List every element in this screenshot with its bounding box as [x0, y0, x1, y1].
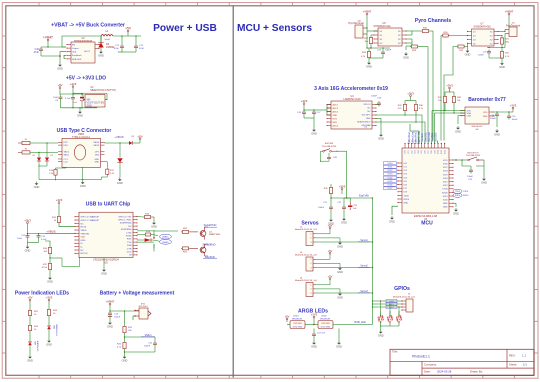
wire J2 power pin [316, 231, 330, 234]
LED D5 power 5V red [28, 332, 39, 351]
resistor R35 4.7k SCL pullup [398, 103, 407, 115]
diode D2 ESD protection D+ [45, 143, 54, 166]
ground GND (LED 3V3) [46, 330, 52, 346]
capacitor C14 100uF battery [108, 311, 121, 319]
ground GND (vsense) [122, 355, 128, 363]
svg-text:(NL): (NL) [505, 42, 509, 44]
svg-text:IO9: IO9 [434, 150, 436, 153]
ground GND (UART) [101, 268, 107, 276]
svg-text:IO4: IO4 [418, 150, 420, 153]
svg-text:10uF: 10uF [53, 97, 59, 99]
svg-text:TS-1088-X2S5: TS-1088-X2S5 [322, 146, 337, 148]
resistor R15 1k VREGIN [52, 206, 61, 224]
ground GND (pyro2 left) [465, 43, 472, 56]
svg-text:GND: GND [366, 118, 371, 120]
capacitor C13 0.1uF UART vdd [37, 234, 48, 241]
wire RXD TXD to transistors [137, 230, 155, 252]
svg-text:DOU GND: DOU GND [321, 326, 331, 328]
wire esd bottom rail [380, 325, 399, 330]
wire mcu EN to boot switch [453, 159, 467, 160]
LED LED1 WS2812B-2020 argb [287, 316, 305, 329]
svg-text:GND: GND [465, 53, 471, 57]
svg-text:IO2: IO2 [411, 150, 413, 153]
block title +5V -> +3V3 LDO [66, 76, 106, 82]
net flag USBD- [153, 239, 172, 244]
ground GND (boot) [481, 177, 487, 185]
wire J2 gnd pin [316, 238, 340, 241]
svg-text:100nF: 100nF [467, 176, 474, 178]
svg-text:47uF: 47uF [34, 51, 40, 54]
op-amp U2 regulator TPS54302 body [66, 37, 99, 63]
diode pack D9 gpio esd [396, 311, 402, 326]
svg-text:TXD0: TXD0 [463, 191, 469, 193]
svg-text:IO12: IO12 [444, 150, 446, 154]
wire pyro cont1 vertical [432, 31, 434, 141]
wire I2C SDA down to MCU [416, 122, 425, 141]
power symbol +3V3 (I2C pullups) [405, 91, 416, 103]
svg-text:GND: GND [80, 184, 86, 188]
ground GND (TVS) [117, 178, 123, 186]
resistor R17 47.5k divider bottom [42, 258, 52, 271]
connector J11 PyroTerminal 2 [505, 23, 520, 37]
svg-text:+3V3: +3V3 [24, 218, 31, 222]
resistor R16 10k divider top [43, 241, 52, 255]
title block outline [390, 349, 534, 375]
wire diode to +5V [132, 142, 140, 144]
ground GND (J2) [337, 241, 343, 249]
ground GND (accel right) [376, 119, 384, 141]
svg-text:Power Indication LEDs: Power Indication LEDs [15, 291, 69, 297]
capacitor C22 10uF mcu [337, 198, 346, 211]
net label Servo2 [358, 265, 370, 268]
svg-text:47.5k: 47.5k [42, 267, 48, 269]
block title Power Indication LEDs [15, 291, 69, 297]
wire pyro2 vbat to connector [508, 18, 510, 27]
svg-text:RGB_LED: RGB_LED [354, 321, 365, 324]
svg-text:MMBT3904: MMBT3904 [209, 234, 221, 236]
resistor R19 470 usb d+ [144, 231, 152, 236]
wire I2C SCL down to MCU [405, 115, 422, 141]
svg-text:100nF: 100nF [144, 346, 151, 348]
wire +VBAT to VIN [41, 46, 66, 48]
svg-text:RES: RES [333, 122, 338, 124]
svg-text:47uF: 47uF [139, 48, 145, 50]
svg-text:DOU GND: DOU GND [293, 326, 303, 328]
capacitor C23 1uF mcu red [344, 198, 358, 210]
ground GND (mcu bottom left) [389, 216, 395, 224]
svg-text:TXD: TXD [127, 242, 132, 244]
svg-text:MolexKK-254-2.54_1x3: MolexKK-254-2.54_1x3 [295, 255, 318, 257]
svg-text:+VBAT: +VBAT [505, 10, 514, 14]
wire J3 signal to bus [316, 267, 373, 269]
op-amp U3 ESP32-S3-MINI MCU body [402, 148, 449, 227]
power symbol +3V3 (UART caps) [24, 218, 31, 226]
wire pyro2 cont row [449, 35, 468, 36]
wire pyro1 bottom rail [366, 34, 390, 49]
wire pyro fire1 vertical [427, 47, 429, 141]
svg-text:+3V3: +3V3 [70, 82, 77, 86]
svg-text:REV:: REV: [509, 353, 516, 357]
net label Serial0TxD [204, 223, 217, 227]
wire baro pullup tops [445, 90, 454, 95]
connector J5 gpio header [393, 294, 416, 313]
svg-text:Pyro Channels: Pyro Channels [415, 18, 451, 24]
svg-text:SW2 EN: SW2 EN [325, 143, 334, 145]
resistor R18 1k suspend [137, 213, 154, 221]
wire +5V output rail [113, 35, 141, 36]
wire vsense node [124, 334, 155, 341]
svg-text:GND: GND [333, 115, 338, 117]
MCU left net labels column [384, 162, 399, 190]
svg-text:SDA/SDI/SDO: SDA/SDI/SDO [357, 120, 371, 123]
resistor R34 pyro2 cont [441, 32, 450, 37]
svg-text:LED2: LED2 [321, 316, 327, 318]
ground GND (gpio esd) [378, 330, 384, 338]
svg-text:GND: GND [404, 203, 409, 205]
svg-text:GND: GND [443, 207, 448, 209]
power symbol +5V (argb left) [285, 315, 290, 323]
svg-text:VDD DIN: VDD DIN [293, 323, 302, 325]
wire pyro1 vbat to connector [366, 18, 367, 34]
title block Date field [424, 370, 483, 374]
svg-text:GND: GND [494, 133, 500, 137]
wire J2 signal to bus [316, 241, 373, 243]
net flag RXD0 oval [453, 193, 469, 197]
connector J2 servo header [295, 227, 318, 246]
resistor R38 10k baro pullup 2 [452, 95, 461, 104]
capacitor C21 100nF mcu [318, 198, 333, 211]
svg-text:Serial0RxD: Serial0RxD [202, 242, 215, 246]
svg-text:Servos: Servos [301, 221, 318, 227]
svg-text:+3V3: +3V3 [301, 99, 308, 103]
svg-text:CSB: CSB [467, 116, 472, 118]
power symbol +3V3 (baro) [510, 104, 517, 112]
svg-text:PyroFire1: PyroFire1 [408, 131, 411, 142]
wire lower rxd link [153, 244, 155, 252]
svg-text:GPIO.0 / TXT: GPIO.0 / TXT [118, 216, 132, 218]
wire EspTxRx to mcu [331, 195, 373, 199]
svg-text:WS2812B: WS2812B [292, 318, 302, 320]
wire output caps to feedback [118, 50, 136, 53]
ground GND (accel caps) [304, 116, 317, 136]
svg-text:ADC1: ADC1 [333, 103, 339, 106]
svg-text:BaroSCL: BaroSCL [425, 131, 428, 141]
title block Sheet field [509, 363, 527, 367]
svg-text:+VBUS: +VBUS [46, 229, 55, 233]
svg-text:ADC0: ADC0 [333, 124, 339, 127]
svg-text:Output: Output [72, 47, 79, 50]
svg-text:5V POWER: 5V POWER [38, 340, 40, 351]
svg-text:2024-03-28: 2024-03-28 [437, 370, 452, 374]
block title Servos [301, 221, 318, 227]
resistor R29 pyro1 fire gate [410, 45, 428, 52]
svg-text:VOUT VOUT: VOUT VOUT [87, 103, 101, 105]
svg-text:EspRxD: EspRxD [205, 255, 215, 259]
svg-text:USBD-: USBD- [162, 242, 169, 244]
svg-text:NC: NC [128, 226, 132, 228]
MCU top rotated net labels [409, 139, 421, 144]
svg-text:D-: D- [81, 247, 84, 249]
svg-text:Sheet:: Sheet: [509, 363, 517, 367]
svg-text:GND: GND [483, 116, 488, 118]
svg-text:4.7uF: 4.7uF [65, 98, 71, 100]
svg-text:GND: GND [389, 220, 395, 224]
svg-text:PyroFire2: PyroFire2 [415, 131, 418, 142]
capacitor C28 100nF EN delay [327, 156, 338, 162]
power symbol +VBAT (battery) [106, 300, 115, 308]
section title MCU + Sensors [237, 23, 312, 34]
wire bus above MCU into top pins [405, 115, 438, 144]
svg-text:SIY8204(FII-GE): SIY8204(FII-GE) [373, 26, 390, 28]
svg-text:USBD+: USBD+ [162, 237, 170, 239]
resistor R30 pyro1 cont [412, 28, 433, 33]
svg-text:USB Type C Connector: USB Type C Connector [57, 128, 112, 134]
op-amp U5 CP2102N USB-UART bridge body [74, 212, 137, 265]
svg-text:Title:: Title: [392, 349, 398, 353]
svg-text:GND: GND [117, 181, 123, 185]
capacitor C12 47uF output [134, 36, 145, 50]
svg-text:+5V: +5V [328, 274, 333, 278]
svg-text:PyroCont1: PyroCont1 [411, 130, 414, 142]
svg-text:MCU + Sensors: MCU + Sensors [237, 23, 312, 34]
svg-text:10uH: 10uH [104, 39, 110, 41]
section divider line between Power+USB and MCU+Sensors [232, 6, 234, 378]
capacitor C7 4.7uF LDO out [65, 94, 75, 108]
ground GND (J4) [337, 292, 343, 300]
wire mcu left gnd [392, 206, 398, 215]
wire servo bus vertical [372, 198, 373, 325]
svg-text:IO6: IO6 [425, 150, 427, 153]
MCU left pin rows [397, 162, 409, 204]
svg-text:Drawn By:: Drawn By: [470, 370, 483, 374]
svg-text:+VBAT: +VBAT [106, 300, 115, 304]
capacitor C16 100nF accel [297, 107, 315, 116]
connector J4 servo header [295, 278, 318, 297]
svg-text:GND: GND [453, 212, 459, 216]
ground GND (pyro2 sense) [499, 62, 505, 70]
svg-text:SBU1: SBU1 [64, 152, 70, 154]
svg-text:+3V3: +3V3 [407, 91, 414, 95]
svg-text:RVCLK: RVCLK [81, 253, 89, 255]
wire input cap to GND [59, 55, 61, 63]
connector J3 servo header [295, 252, 318, 271]
power symbol +5V (LDO input) [57, 83, 62, 91]
wire divider bottom [124, 350, 125, 355]
ground GND (LDO) [77, 110, 83, 118]
title block Title field [392, 349, 430, 358]
svg-text:Company:: Company: [424, 363, 437, 367]
op-amp U1 LDO ME6217C33M5G body [83, 86, 116, 108]
resistor R20 470 txd [154, 228, 190, 233]
ground GND (divider) [47, 271, 53, 284]
wire mcu right gnd [453, 203, 456, 207]
svg-text:IO8: IO8 [431, 150, 433, 153]
svg-text:GND: GND [337, 270, 343, 274]
svg-text:+5V: +5V [328, 223, 333, 227]
svg-text:GPIO.2 / WAKEUP: GPIO.2 / WAKEUP [81, 219, 100, 222]
svg-text:RSTb: RSTb [81, 227, 87, 229]
svg-text:+5V: +5V [27, 296, 32, 300]
op-amp U8 SPL06-001 barometer body [460, 107, 493, 131]
capacitor C8 tantalum red [73, 94, 88, 108]
connector USB1 TYPE-C body [58, 134, 105, 167]
power symbol +3V3 (argb mid) [311, 313, 318, 320]
svg-text:+5V: +5V [137, 134, 142, 138]
block title Battery + Voltage measurement [100, 291, 175, 297]
svg-text:AcclInt1: AcclInt1 [421, 133, 424, 142]
wire D- to connector [30, 152, 58, 153]
svg-text:C27 1uF: C27 1uF [317, 333, 326, 335]
svg-text:GPIO.3 / WAKEUP: GPIO.3 / WAKEUP [81, 216, 100, 219]
power symbol +3V3 (baro pullups) [446, 84, 453, 91]
svg-text:GND: GND [94, 162, 99, 164]
wire gpio rows from bus [372, 300, 402, 307]
switch SW2 EN TS-1088-X2S5 [322, 143, 337, 152]
svg-text:GND: GND [341, 221, 347, 225]
LED D6 power 3V3 red [47, 317, 58, 336]
diode D1 ESD protection D- [32, 152, 41, 177]
wire argb led2 gnd [338, 329, 340, 342]
capacitor C11 47uF output [114, 36, 124, 50]
svg-text:VMon: VMon [145, 333, 152, 337]
capacitor C26 100nF boot [462, 160, 474, 181]
transistor Q1 MMBT3904 [190, 227, 221, 240]
svg-text:PyroTerminal: PyroTerminal [348, 21, 364, 25]
polyfuse F1 D+ line [18, 139, 30, 144]
svg-text:LED1: LED1 [293, 316, 299, 318]
svg-text:GND: GND [107, 325, 113, 329]
wire J4 gnd pin [316, 289, 340, 292]
wire baro vdd rail [493, 111, 513, 112]
svg-text:+5V: +5V [57, 83, 62, 87]
svg-text:RTSb: RTSb [126, 236, 132, 238]
svg-text:MolexKK-254-2.54_1x3: MolexKK-254-2.54_1x3 [295, 280, 318, 282]
ground GND (J3) [337, 267, 343, 275]
svg-text:ADC3: ADC3 [333, 110, 339, 113]
wire buck feedback loop [60, 36, 100, 59]
transistor Q2 MMBT3904 [190, 242, 216, 256]
wire battery rail [109, 308, 139, 312]
wire pyro1 drain out [406, 31, 412, 46]
svg-text:GND: GND [81, 240, 86, 242]
wire baro gnd [493, 116, 497, 127]
wire pyro1 source to vbat [367, 30, 378, 32]
svg-text:LIS2DH12 0x19: LIS2DH12 0x19 [344, 98, 362, 101]
power symbol +VBAT (buck input) [43, 36, 53, 46]
svg-text:GND: GND [366, 65, 372, 69]
wire baro pullup bottoms to SCK SDA [444, 104, 454, 114]
capacitor C6 10uF LDO in [53, 95, 63, 108]
svg-text:PhotonE1.1: PhotonE1.1 [412, 355, 430, 359]
wire LDO input rail [60, 91, 85, 100]
svg-text:NC: NC [367, 107, 371, 109]
svg-text:VDD DIN: VDD DIN [321, 323, 330, 325]
svg-text:Barometer 0x77: Barometer 0x77 [468, 97, 506, 103]
resistor R36 4.7k SDA pullup [414, 103, 423, 122]
svg-text:GND: GND [336, 345, 342, 349]
power symbol +5V (J3) [328, 249, 333, 256]
svg-text:100nF: 100nF [490, 118, 497, 120]
connector BT1 battery JST [134, 304, 151, 320]
LED LED2 WS2812B-2020 argb 2 [318, 316, 333, 329]
svg-text:3V3 POWER: 3V3 POWER [57, 324, 59, 336]
net labels gpio column [386, 300, 397, 309]
net label EspRxD [203, 255, 217, 259]
resistor R33 pyro2 fire gate [457, 45, 466, 52]
svg-text:NC: NC [81, 223, 85, 225]
resistor R37 10k baro pullup 1 [438, 95, 447, 104]
svg-text:+3V3: +3V3 [339, 184, 346, 188]
resistor R28 4.7k pyro1 sense [361, 48, 371, 59]
power symbol +3V3 (LED chain 2) [46, 296, 53, 304]
net label Servo1 [358, 239, 370, 242]
svg-text:+3V3: +3V3 [311, 313, 318, 317]
wire baro csb gnd [458, 116, 465, 124]
block title USB to UART Chip [86, 202, 130, 208]
svg-text:RXD: RXD [127, 239, 132, 241]
svg-text:IO11: IO11 [441, 150, 443, 154]
svg-text:VBUS: VBUS [93, 142, 99, 144]
svg-text:+5V: +5V [125, 27, 132, 31]
ground GND (buck left) [57, 63, 63, 71]
power symbol +VBAT (pyro 2) [505, 10, 514, 18]
svg-text:+3V3: +3V3 [56, 198, 63, 202]
svg-text:100nF: 100nF [478, 55, 485, 57]
power symbol +3V3 (UART vdd) [56, 198, 63, 206]
op-amp U7 SIY8204 high side switch 2 body [467, 23, 499, 47]
wire +3V3 rail caps [27, 226, 45, 234]
svg-text:GND: GND [403, 56, 409, 60]
svg-text:100nF: 100nF [385, 50, 392, 52]
ground GND (UART caps) [25, 239, 39, 253]
ground GND (mcu right) [453, 208, 459, 216]
capacitor C27 100nF argb [312, 329, 326, 342]
svg-text:NC: NC [81, 250, 85, 252]
svg-text:VDD: VDD [81, 237, 86, 239]
svg-text:GND: GND [46, 343, 52, 347]
svg-text:GND: GND [25, 249, 31, 253]
svg-text:GND: GND [151, 225, 157, 229]
power symbol +5V (VBUS) [137, 134, 142, 143]
svg-text:Servo1: Servo1 [360, 239, 368, 242]
switch SW1 BOOT TS-1088 [466, 152, 484, 161]
svg-text:Servo2: Servo2 [360, 265, 368, 268]
svg-text:GND: GND [455, 130, 461, 134]
wire R15 to RSTb pin [59, 224, 75, 227]
capacitor C25 100nF pyro2 [478, 50, 502, 62]
wire accel SDA to bus [376, 121, 417, 122]
diode pack D8 gpio esd [387, 311, 393, 326]
power symbol +VBAT (pyro 1) [363, 10, 372, 18]
svg-text:EspTxRx: EspTxRx [359, 195, 370, 198]
MCU top pin row [404, 143, 446, 154]
svg-text:GND: GND [499, 65, 505, 69]
ground GND (argb led2) [336, 341, 342, 349]
diode usb d- red element [137, 238, 153, 241]
svg-text:GND: GND [57, 67, 63, 71]
svg-text:GND: GND [101, 272, 107, 276]
wire pyro2 fire row [466, 43, 468, 46]
svg-text:CTSb: CTSb [126, 232, 132, 234]
svg-text:TXD0: TXD0 [442, 189, 448, 191]
capacitor C24 100nF pyro1 [369, 48, 392, 61]
svg-text:ADC2: ADC2 [333, 107, 339, 110]
svg-text:PyroCont2: PyroCont2 [418, 130, 421, 142]
ground GND (baro) [494, 129, 500, 137]
wire D+ to connector [30, 142, 58, 143]
svg-text:ME6217C33,3.3V(TYH): ME6217C33,3.3V(TYH) [90, 89, 115, 92]
svg-text:Battery + Voltage measurement: Battery + Voltage measurement [100, 291, 175, 297]
